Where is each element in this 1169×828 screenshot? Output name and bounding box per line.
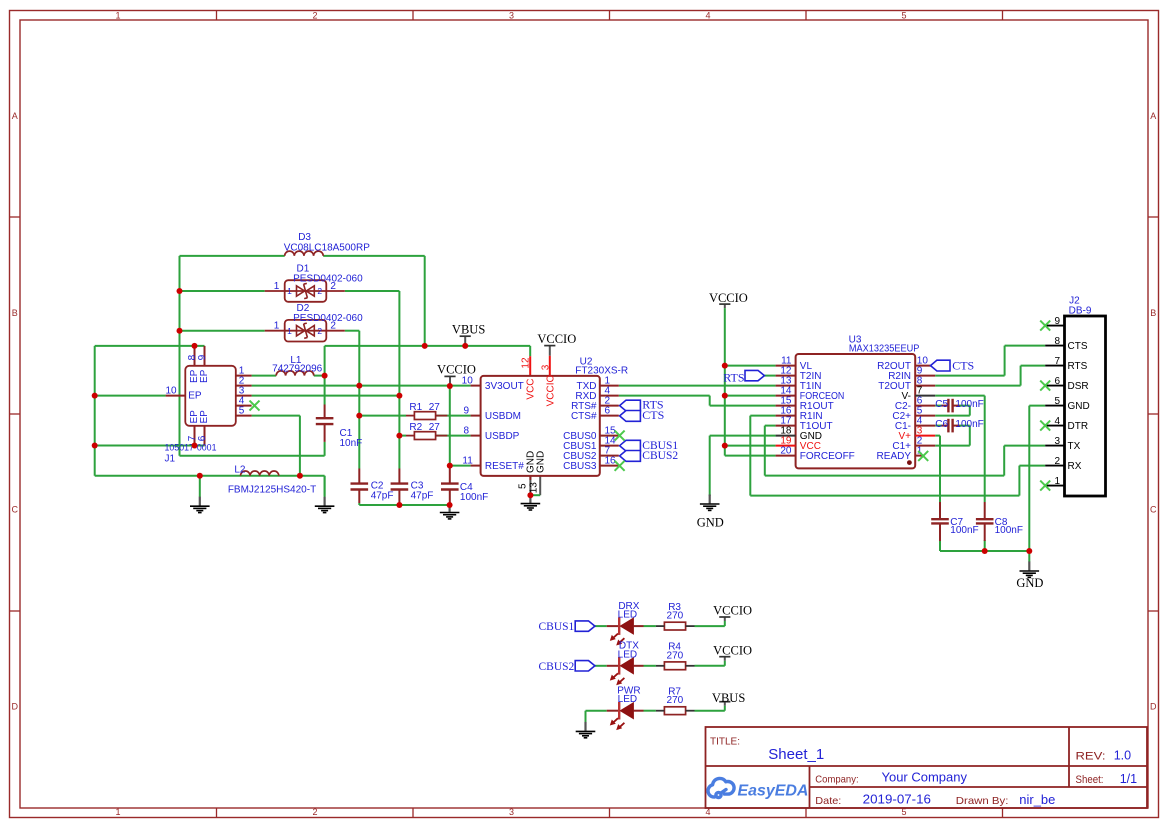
wire C3 riser: [398, 396, 400, 469]
C8 labels: [995, 517, 1023, 536]
net label VCCIO left stem: [444, 376, 455, 386]
svg-text:MAX13235EEUP: MAX13235EEUP: [849, 343, 920, 354]
title block frame: [706, 727, 1148, 808]
svg-text:R1: R1: [409, 402, 422, 413]
svg-text:J1: J1: [165, 453, 176, 464]
J2 pin4 no-connect X: [1040, 421, 1050, 431]
svg-text:6: 6: [605, 405, 611, 416]
resistor R4 270: [656, 662, 695, 670]
D2 pin numbers: [274, 321, 337, 336]
LED DTX: [607, 657, 644, 685]
wire C6 loop: [935, 426, 970, 446]
svg-text:270: 270: [667, 650, 684, 661]
wire J1 pin1 to L1: [252, 375, 325, 377]
wire VBUS label stem: [460, 336, 471, 346]
svg-text:13: 13: [529, 482, 540, 494]
net label VCCIO u2top stem: [544, 346, 555, 376]
wire V+ to C7: [935, 436, 940, 502]
capacitor C2 47pF: [351, 469, 369, 504]
svg-text:VCCIO: VCCIO: [713, 604, 752, 618]
svg-text:DSR: DSR: [1068, 381, 1089, 392]
U2 CTS net port: [620, 408, 665, 422]
svg-text:2: 2: [1054, 456, 1060, 467]
C3 labels: [411, 481, 434, 502]
resistor R1 27: [406, 412, 447, 420]
svg-text:C: C: [11, 505, 18, 515]
svg-text:8: 8: [1054, 336, 1060, 347]
svg-text:EP: EP: [188, 391, 202, 402]
net label VBUS (top): [452, 323, 485, 337]
title block Company: [815, 771, 967, 786]
svg-text:3: 3: [541, 364, 552, 370]
svg-text:1: 1: [1054, 476, 1060, 487]
svg-text:9: 9: [463, 405, 469, 416]
svg-text:L2: L2: [234, 465, 246, 476]
wire RXD to R1OUT: [619, 396, 776, 406]
svg-text:3V3OUT: 3V3OUT: [485, 381, 524, 392]
R2 labels: [409, 422, 440, 433]
wire V- to C8: [935, 396, 985, 502]
svg-text:RX: RX: [1068, 461, 1082, 472]
svg-text:USBDP: USBDP: [485, 431, 520, 442]
svg-text:2: 2: [317, 326, 322, 336]
U3 pin1 marker dot: [907, 460, 912, 465]
wire VL row: [725, 365, 776, 367]
wire RTS flag to T2IN: [764, 375, 775, 377]
J1 refdes: [165, 453, 176, 464]
svg-text:EP: EP: [199, 410, 210, 424]
wire shield left vertical: [94, 346, 96, 476]
wire J1 bottom pins: [95, 426, 205, 446]
svg-text:DTR: DTR: [1068, 421, 1089, 432]
U3 RTS net port: [723, 370, 764, 384]
svg-text:DB-9: DB-9: [1069, 305, 1092, 316]
svg-text:270: 270: [667, 695, 684, 706]
title block TITLE: [710, 736, 740, 748]
title block Date: [815, 793, 931, 808]
U2 RTS net port: [620, 398, 664, 412]
svg-text:1: 1: [274, 281, 280, 292]
U2 CBUS0 no-connect X: [615, 431, 625, 441]
connector J1 105017-0001: [165, 354, 251, 441]
svg-text:5: 5: [239, 405, 245, 416]
svg-text:LED: LED: [618, 610, 637, 621]
svg-text:VCC: VCC: [526, 378, 537, 399]
capacitor C4 100nF: [441, 469, 459, 504]
D1 labels: [293, 264, 363, 285]
svg-text:USBDM: USBDM: [485, 411, 521, 422]
svg-text:D: D: [11, 702, 18, 712]
capacitor C6 100nF: [942, 419, 960, 433]
svg-text:100nF: 100nF: [995, 525, 1023, 536]
wire VCC12 stub: [529, 356, 531, 376]
svg-text:FBMJ2125HS420-T: FBMJ2125HS420-T: [228, 485, 316, 496]
svg-text:10: 10: [462, 375, 474, 386]
svg-text:R2: R2: [409, 422, 422, 433]
wire U2 gnd pins: [530, 476, 540, 495]
capacitor C5 100nF: [942, 399, 960, 413]
svg-text:2: 2: [312, 807, 317, 817]
wire J2 GND down: [1029, 406, 1045, 551]
wire VCCIO u3 riser: [725, 308, 776, 456]
svg-text:4: 4: [1054, 416, 1060, 427]
wire C5 loop: [935, 406, 970, 416]
wire caps bottom row: [359, 503, 449, 505]
svg-text:B: B: [1150, 308, 1156, 318]
svg-text:4: 4: [705, 11, 710, 21]
L1 labels: [272, 355, 322, 375]
resistor R7 270: [656, 707, 695, 715]
svg-text:C6: C6: [935, 419, 948, 430]
svg-text:FORCEOFF: FORCEOFF: [800, 451, 855, 462]
net port CBUS1 (led): [539, 621, 595, 633]
svg-text:VC08LC18A500RP: VC08LC18A500RP: [284, 243, 370, 254]
U2 pin names: [485, 375, 597, 473]
D1 pin numbers: [274, 281, 337, 296]
wire R1 row: [359, 415, 470, 417]
svg-text:TITLE:: TITLE:: [710, 736, 740, 748]
L2 labels: [228, 465, 316, 496]
capacitor C1 10nF: [316, 405, 334, 442]
wire CBUS2 led row: [595, 661, 725, 666]
R7 labels: [667, 686, 684, 706]
wire R2 row: [399, 435, 470, 437]
svg-text:CTS: CTS: [642, 408, 664, 422]
svg-text:LED: LED: [618, 649, 637, 660]
svg-text:GND: GND: [697, 516, 724, 530]
svg-text:2: 2: [312, 11, 317, 21]
svg-text:100nF: 100nF: [460, 492, 488, 503]
wire R1IN routing (RX): [750, 416, 1045, 496]
svg-text:1: 1: [274, 321, 280, 332]
wire U3 GND18: [710, 436, 776, 496]
wire D3 top: [180, 256, 425, 346]
svg-text:270: 270: [667, 611, 684, 622]
svg-text:742792096: 742792096: [272, 363, 322, 374]
U2 CBUS1 net port: [620, 440, 679, 452]
svg-text:D3: D3: [298, 232, 311, 243]
wire 3V3OUT net: [252, 385, 471, 387]
ground (L2 right): [315, 476, 335, 513]
svg-text:D: D: [1150, 702, 1157, 712]
inductor L1 742792096: [276, 371, 314, 376]
diode D2 PESD0402-060: [265, 320, 345, 342]
svg-text:FT230XS-R: FT230XS-R: [575, 365, 628, 376]
ground (U2): [521, 494, 541, 510]
svg-text:GND: GND: [1016, 576, 1043, 590]
svg-text:EasyEDA: EasyEDA: [738, 783, 809, 800]
U3 READY no-connect X: [918, 451, 928, 461]
svg-text:105017-0001: 105017-0001: [165, 443, 217, 454]
wire T1OUT routing (TX): [765, 426, 1045, 476]
diode D3 VC08LC18A500RP coil: [285, 251, 324, 256]
svg-text:EP: EP: [199, 369, 210, 383]
ground (J2/C7C8) with label: [1016, 551, 1043, 590]
C1 labels: [340, 428, 363, 449]
svg-text:8: 8: [463, 425, 469, 436]
resistor R2 27: [406, 432, 447, 440]
svg-text:CBUS1: CBUS1: [539, 621, 575, 633]
LED PWR labels: [617, 685, 640, 705]
wire TXD to T1IN: [619, 385, 776, 387]
svg-text:nir_be: nir_be: [1019, 793, 1055, 807]
title block DrawnBy: [956, 793, 1056, 807]
svg-text:VBUS: VBUS: [452, 323, 485, 337]
svg-text:2019-07-16: 2019-07-16: [863, 793, 931, 807]
ferrite bead L2 FBMJ2125HS420-T: [241, 471, 279, 476]
svg-text:3: 3: [509, 807, 514, 817]
svg-text:47pF: 47pF: [371, 490, 394, 501]
svg-text:100nF: 100nF: [950, 525, 978, 536]
U2 pin numbers: [462, 357, 616, 493]
LED DRX labels: [618, 601, 640, 621]
svg-text:CTS#: CTS#: [571, 411, 597, 422]
U2 refdes labels: [575, 356, 628, 376]
svg-text:RTS: RTS: [723, 370, 744, 384]
svg-text:CBUS3: CBUS3: [563, 461, 597, 472]
svg-text:47pF: 47pF: [411, 490, 434, 501]
ground (PWR led): [576, 711, 596, 738]
svg-text:B: B: [12, 308, 18, 318]
wire D3 left riser: [179, 256, 181, 456]
wire D2 row: [180, 331, 360, 386]
J2 pin9 no-connect X: [1040, 321, 1050, 331]
net label VCCIO (U2 top): [537, 332, 576, 346]
svg-text:RTS: RTS: [1068, 361, 1088, 372]
svg-text:7: 7: [1054, 356, 1060, 367]
svg-text:PESD0402-060: PESD0402-060: [293, 313, 363, 324]
J2 pin6 no-connect X: [1040, 381, 1050, 391]
net label VCCIO led2 stem: [719, 657, 730, 661]
svg-text:GND: GND: [1068, 401, 1090, 412]
net label VCCIO (left): [437, 363, 476, 377]
C7 labels: [950, 517, 978, 536]
svg-text:CBUS2: CBUS2: [539, 661, 575, 673]
svg-text:Sheet_1: Sheet_1: [768, 746, 824, 763]
svg-text:RESET#: RESET#: [485, 461, 524, 472]
EasyEDA logo: [708, 778, 808, 799]
svg-text:Drawn By:: Drawn By:: [956, 795, 1009, 807]
svg-text:10: 10: [165, 385, 177, 396]
svg-text:VCCIO: VCCIO: [713, 643, 752, 657]
wire R2IN to J2 CTS: [935, 346, 1045, 376]
svg-text:16: 16: [605, 455, 617, 466]
C2 labels: [371, 481, 394, 502]
LED PWR: [607, 702, 644, 730]
U3 refdes labels: [849, 334, 920, 354]
svg-text:Date:: Date:: [815, 795, 841, 807]
title block sheet name: [768, 746, 824, 763]
wire L2 row: [95, 476, 325, 496]
net label VCCIO (led2): [713, 643, 752, 657]
wire PWR led row: [586, 706, 725, 711]
LED DRX: [607, 617, 644, 645]
svg-text:10nF: 10nF: [340, 438, 363, 449]
svg-text:1: 1: [287, 326, 292, 336]
resistor R3 270: [656, 622, 695, 630]
svg-text:3: 3: [1054, 436, 1060, 447]
svg-text:Company:: Company:: [815, 774, 858, 786]
svg-text:27: 27: [429, 422, 441, 433]
R1 labels: [409, 402, 440, 413]
svg-text:5: 5: [518, 483, 529, 489]
svg-text:1: 1: [115, 11, 120, 21]
IC U2 FT230XS-R body: [471, 376, 619, 480]
net label VCCIO u3 stem: [719, 304, 730, 308]
net label VBUS (led3): [712, 691, 745, 705]
net label VCCIO (U3): [709, 291, 748, 305]
svg-text:CBUS2: CBUS2: [642, 450, 678, 462]
wire C7 C8 gnd row: [940, 540, 1029, 551]
svg-text:READY: READY: [877, 451, 912, 462]
svg-text:11: 11: [462, 455, 473, 466]
svg-text:PESD0402-060: PESD0402-060: [293, 273, 363, 284]
svg-text:VCCIO: VCCIO: [437, 363, 476, 377]
svg-text:9: 9: [197, 354, 208, 360]
R4 labels: [667, 642, 684, 662]
svg-text:A: A: [12, 111, 18, 121]
C6 labels: [935, 419, 983, 430]
net label VBUS led3 stem: [719, 702, 730, 706]
svg-text:CTS: CTS: [1068, 341, 1088, 352]
title block Sheet: [1076, 772, 1138, 786]
svg-text:VCCIO: VCCIO: [537, 332, 576, 346]
J2 refdes labels: [1069, 295, 1092, 316]
U2 CBUS3 no-connect X: [615, 461, 625, 471]
svg-text:VCCIO: VCCIO: [546, 375, 557, 407]
U2 CBUS2 net port: [620, 450, 679, 462]
svg-text:C: C: [1150, 505, 1157, 515]
svg-text:Your Company: Your Company: [882, 771, 968, 785]
svg-text:100nF: 100nF: [955, 419, 983, 430]
ground (J1 left): [190, 476, 210, 513]
svg-text:C5: C5: [935, 399, 948, 410]
capacitor C8 100nF: [976, 502, 994, 541]
svg-text:9: 9: [1054, 316, 1060, 327]
wire D1 row: [180, 291, 400, 396]
svg-text:100nF: 100nF: [955, 399, 983, 410]
diode D1 PESD0402-060: [265, 280, 345, 302]
U3 pin numbers: [780, 355, 928, 456]
net label VCCIO led1 stem: [719, 617, 730, 621]
ground (C2-C4): [440, 503, 460, 519]
svg-text:5: 5: [901, 11, 906, 21]
svg-text:27: 27: [429, 402, 441, 413]
svg-text:Sheet:: Sheet:: [1076, 774, 1104, 786]
svg-text:6: 6: [197, 435, 208, 441]
svg-text:20: 20: [780, 445, 792, 456]
J1 pin4 no-connect X: [250, 401, 260, 411]
wire C2 riser: [358, 386, 360, 469]
C4 labels: [460, 482, 488, 503]
svg-text:LED: LED: [618, 694, 637, 705]
wire L1 out to C1: [324, 376, 326, 405]
IC U3 MAX13235EEUP body: [776, 354, 936, 468]
svg-text:1: 1: [115, 807, 120, 817]
svg-text:1.0: 1.0: [1114, 749, 1131, 763]
J2 pin1 no-connect X: [1040, 481, 1050, 491]
J1 value label: [165, 443, 217, 454]
svg-text:2: 2: [317, 286, 322, 296]
wire VCCIO-left riser / RESET: [450, 386, 471, 469]
wire CBUS1 led row: [595, 621, 725, 626]
wire T2OUT to J2 RTS: [935, 366, 1045, 386]
wire VBUS bus y=346: [325, 346, 531, 376]
U3 pin names: [800, 361, 912, 462]
svg-text:REV:: REV:: [1076, 751, 1106, 763]
svg-text:1/1: 1/1: [1120, 772, 1137, 786]
capacitor C7 100nF: [931, 502, 949, 541]
svg-text:TX: TX: [1068, 441, 1081, 452]
svg-text:A: A: [1150, 111, 1156, 121]
wire J1 pin5: [252, 416, 300, 476]
wire FORCEON row: [725, 395, 776, 397]
svg-text:1: 1: [287, 286, 292, 296]
capacitor C3 47pF: [391, 469, 409, 504]
svg-text:GND: GND: [536, 451, 547, 473]
wire C1 bottom row: [180, 442, 325, 456]
D2 labels: [293, 303, 363, 324]
svg-text:5: 5: [1054, 396, 1060, 407]
R3 labels: [667, 602, 684, 622]
connector J2 DB-9 body: [1045, 316, 1105, 496]
net port CBUS2 (led): [539, 661, 595, 673]
D3 labels: [284, 232, 370, 253]
wire VCC19 row: [725, 445, 776, 447]
svg-text:3: 3: [509, 11, 514, 21]
wire J1 pin3: [252, 395, 400, 397]
svg-text:VCCIO: VCCIO: [709, 291, 748, 305]
title block REV: [1076, 749, 1132, 763]
svg-text:VBUS: VBUS: [712, 691, 745, 705]
svg-text:12: 12: [521, 357, 532, 369]
ground (U3) with label: [697, 495, 724, 530]
wire EP pin10: [95, 395, 166, 397]
wire J1 shield top: [95, 346, 205, 366]
LED DTX labels: [618, 641, 640, 661]
net label VCCIO (led1): [713, 604, 752, 618]
svg-text:CTS: CTS: [952, 359, 974, 373]
svg-text:6: 6: [1054, 376, 1060, 387]
U3 CTS net port: [931, 359, 975, 373]
C5 labels: [935, 399, 983, 410]
